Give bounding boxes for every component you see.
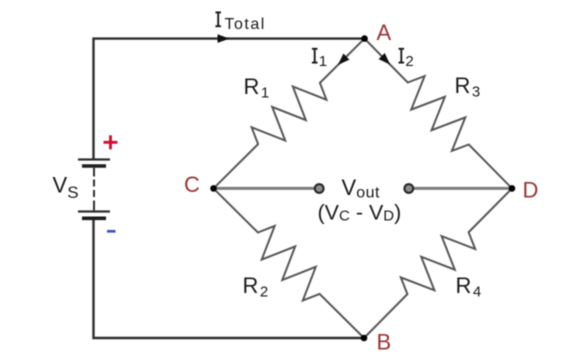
wire: bottom rail from battery - to node B (94, 220, 365, 339)
svg-text:R4: R4 (456, 273, 482, 301)
svg-text:1: 1 (319, 53, 327, 70)
svg-text:R3: R3 (455, 73, 481, 101)
node B (361, 335, 368, 342)
svg-text:Total: Total (225, 16, 266, 33)
label I1 (312, 49, 318, 63)
node A (361, 35, 368, 42)
wire: top rail from battery + to node A (94, 39, 365, 160)
arrow I1 on A-C branch (338, 54, 350, 66)
node D (509, 185, 516, 192)
svg-text:VS: VS (53, 173, 79, 203)
battery plus sign (104, 135, 118, 149)
battery stub above cell 2 (93, 201, 95, 211)
svg-text:D: D (523, 178, 539, 203)
battery VS cell 1 short thick plate (82, 164, 106, 168)
battery VS cell 1 long plate (78, 158, 110, 160)
wire: Vout right terminal to node D (409, 187, 512, 190)
svg-text:C: C (184, 172, 200, 197)
resistor R3 (node A to node D) (365, 39, 513, 189)
resistor R1 (node A to node C) (214, 39, 365, 189)
label I2 (399, 49, 405, 63)
svg-text:B: B (377, 330, 392, 355)
svg-text:Vout: Vout (342, 175, 380, 202)
svg-text:R1: R1 (244, 74, 270, 102)
Vout right terminal (404, 184, 413, 193)
battery VS cell 2 short thick plate (82, 217, 106, 221)
resistor R4 (node D to node B) (364, 188, 512, 338)
svg-text:R2: R2 (243, 273, 269, 301)
battery stub below cell 1 (93, 168, 95, 177)
Vout left terminal (315, 184, 324, 193)
battery minus sign (107, 230, 116, 233)
arrow I_Total on top wire (218, 34, 230, 43)
node C (210, 185, 217, 192)
battery dashed link (93, 180, 95, 198)
svg-text:A: A (377, 20, 392, 45)
svg-text:2: 2 (405, 53, 413, 70)
wire: node C to Vout left terminal (214, 187, 320, 190)
resistor R2 (node C to node B) (214, 188, 365, 338)
battery VS cell 2 long plate (78, 210, 110, 212)
label I_Total (215, 12, 221, 26)
svg-text:(VC - VD): (VC - VD) (318, 201, 402, 225)
arrow I2 on A-D branch (379, 53, 391, 65)
